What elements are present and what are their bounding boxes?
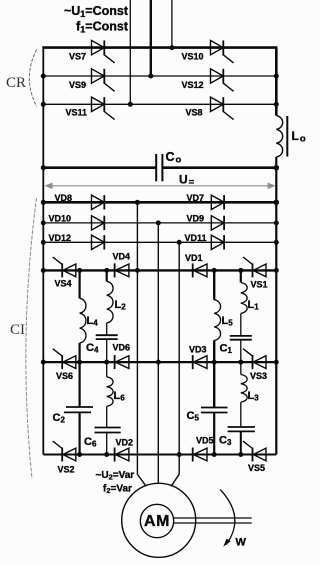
- junction right bus / row VD11: [274, 240, 279, 245]
- diode VD2: [115, 448, 129, 462]
- thyristor VS3: [243, 349, 266, 369]
- junction dot left bus rowVS9: [41, 74, 46, 79]
- diode VD5: [193, 448, 207, 462]
- inductor Lo: [276, 116, 282, 157]
- thyristor VS4: [53, 257, 76, 277]
- svg-text:VD8: VD8: [55, 193, 73, 203]
- svg-text:VD4: VD4: [113, 252, 131, 262]
- junction dot rail/left bus: [41, 165, 46, 170]
- thyristor VS9: [92, 69, 115, 92]
- junction right bus / row 1: [274, 268, 279, 273]
- capacitor C2: [66, 406, 93, 408]
- svg-text:VD7: VD7: [187, 193, 205, 203]
- wire: L1 to C1: [240, 314, 242, 336]
- svg-text:VS11: VS11: [66, 108, 88, 118]
- motor AM inner circle: [140, 504, 173, 537]
- svg-text:VS10: VS10: [182, 52, 204, 62]
- wire: rectifier row VS11/VS8: [43, 103, 276, 105]
- junction column L5 / row 2: [212, 360, 217, 365]
- svg-text:f2=Var: f2=Var: [103, 484, 132, 496]
- diode VD6: [115, 355, 129, 369]
- wire: column L1 upper: [240, 270, 242, 282]
- wire: 3-phase input line 2 (bold): [150, 0, 152, 76]
- wire: DC link rail (bold) with capacitor Co: [43, 166, 156, 169]
- wire: right DC bus lower: [275, 157, 277, 455]
- thyristor VS2: [53, 441, 76, 461]
- diode VD1: [193, 263, 207, 277]
- wire: row VD10/VD9: [43, 222, 276, 224]
- diode VD8: [92, 195, 105, 209]
- thyristor VS10: [211, 40, 234, 63]
- svg-text:VD9: VD9: [187, 214, 205, 224]
- thyristor VS8: [211, 97, 234, 120]
- wire: 3-phase input line 3: [171, 0, 173, 48]
- wire: C6 to row3: [106, 433, 108, 455]
- diode VD12: [92, 235, 105, 249]
- capacitor C5: [201, 407, 228, 409]
- wire: L6 top stem: [106, 362, 108, 377]
- dimension arrow U= (gray): [45, 183, 276, 190]
- junction phase B / row 2: [156, 360, 161, 365]
- junction left bus / row 1: [41, 268, 46, 273]
- wire: inverter row 3: [43, 454, 276, 456]
- svg-text:VD12: VD12: [49, 233, 72, 243]
- wire: L3 top stem: [240, 362, 242, 374]
- wire: phase column A: [137, 202, 146, 486]
- junction dot input3/rowVS7: [169, 45, 174, 50]
- junction column L1 / row 1: [238, 268, 243, 273]
- svg-text:VS12: VS12: [182, 80, 204, 90]
- svg-text:CI: CI: [10, 322, 25, 338]
- svg-text:VD5: VD5: [196, 436, 214, 446]
- wire: rectifier row VS9/VS12: [43, 75, 276, 77]
- wire: column L5 upper: [213, 270, 215, 299]
- wire: inverter row 2 (bold): [43, 361, 276, 363]
- junction column L2 / row 1: [104, 268, 109, 273]
- svg-text:VD11: VD11: [185, 233, 207, 243]
- junction phase C / row 3: [177, 452, 182, 457]
- junction dot right bus rowVS8: [274, 102, 279, 107]
- svg-text:~U1=Const: ~U1=Const: [64, 4, 129, 19]
- svg-text:VD6: VD6: [113, 343, 131, 353]
- inductor L5: [214, 300, 220, 341]
- junction dot phase B / row VD10: [156, 220, 161, 225]
- svg-text:VS8: VS8: [186, 108, 203, 118]
- wire: C1 to row2: [240, 340, 242, 362]
- capacitor C3: [228, 426, 255, 428]
- svg-text:VD1: VD1: [185, 253, 203, 263]
- capacitor C1: [230, 335, 252, 337]
- junction column C1 / row 2: [238, 360, 243, 365]
- wire: phase column C: [171, 242, 179, 486]
- diode VD3: [193, 355, 207, 369]
- svg-text:W: W: [236, 537, 247, 549]
- wire: column L2 upper: [106, 270, 108, 281]
- capacitor Co: [155, 154, 157, 181]
- brace CR: [29, 49, 36, 106]
- wire: column L4 lower: [78, 412, 80, 454]
- junction column L5 / row 1: [212, 268, 217, 273]
- junction column C2 / row 2: [77, 360, 82, 365]
- brace CI: [26, 198, 37, 479]
- capacitor C4: [96, 334, 118, 336]
- wire: C4 to row2: [106, 339, 108, 362]
- capacitor C6: [95, 427, 121, 429]
- svg-text:VS1: VS1: [251, 280, 268, 290]
- junction left bus / row 2: [41, 360, 46, 365]
- core bar of Lo: [286, 116, 288, 157]
- junction left bus / row VD12: [41, 240, 46, 245]
- svg-text:CR: CR: [6, 75, 26, 91]
- svg-text:VS2: VS2: [58, 465, 75, 475]
- wire: L2 to C4: [106, 323, 108, 335]
- junction left bus / row VD8: [41, 200, 46, 205]
- diode VD10: [92, 216, 105, 230]
- junction column C6 / row 3: [104, 452, 109, 457]
- wire: inverter row 1 (bold): [43, 269, 276, 271]
- thyristor VS7: [92, 40, 115, 63]
- svg-text:VS3: VS3: [250, 371, 267, 381]
- wire: column L4 mid: [78, 343, 80, 407]
- wire: column L5 lower: [213, 340, 215, 407]
- svg-text:VD10: VD10: [49, 214, 72, 224]
- junction dot right bus rowVS12: [274, 74, 279, 79]
- junction right bus / row 2: [274, 360, 279, 365]
- svg-text:VD2: VD2: [116, 438, 134, 448]
- diode VD7: [211, 195, 224, 209]
- inductor L2: [107, 281, 113, 323]
- diode VD4: [115, 263, 129, 277]
- inductor L4: [80, 298, 86, 343]
- motor shaft: [174, 517, 252, 519]
- junction column C2 / row 3: [77, 452, 82, 457]
- svg-text:VS5: VS5: [248, 463, 265, 473]
- motor AM outer circle: [122, 483, 196, 557]
- thyristor VS12: [211, 69, 234, 92]
- wire: L6 to C6: [106, 406, 108, 427]
- svg-text:AM: AM: [144, 513, 170, 530]
- junction column L4 / row 1: [77, 268, 82, 273]
- inductor L1: [241, 283, 247, 314]
- junction dot left bus rowVS11: [41, 102, 46, 107]
- svg-text:VS6: VS6: [56, 371, 73, 381]
- wire: 3-phase input line 1: [129, 0, 131, 104]
- wire: column L4 upper: [78, 270, 80, 298]
- svg-text:VD3: VD3: [189, 345, 207, 355]
- junction dot input2/rowVS9: [148, 74, 153, 79]
- thyristor VS6: [53, 349, 76, 369]
- diode VD11: [211, 235, 224, 249]
- thyristor VS1: [243, 257, 266, 277]
- diode VD9: [211, 216, 224, 230]
- inductor L3: [241, 375, 247, 403]
- junction dot phase A / row VD8: [135, 200, 140, 205]
- junction dot phase C / row VD12: [177, 240, 182, 245]
- wire: right DC bus upper: [275, 48, 278, 116]
- junction column C3 / row 3: [238, 452, 243, 457]
- inductor L6: [107, 377, 113, 406]
- wire: row VD12/VD11: [43, 241, 276, 243]
- junction dot input1/rowVS11: [128, 102, 133, 107]
- junction left bus / row VD10: [41, 220, 46, 225]
- svg-text:VS9: VS9: [69, 80, 86, 90]
- svg-text:VS4: VS4: [55, 279, 72, 289]
- junction right bus / row VD9: [274, 220, 279, 225]
- junction dot rail/right bus: [274, 165, 280, 171]
- thyristor VS5: [243, 441, 266, 461]
- wire: rectifier row VS7/VS10 (bold): [42, 46, 277, 49]
- junction right bus / row VD7: [274, 200, 280, 206]
- wire: row VD8/VD7 (bold): [43, 201, 276, 204]
- wire: C3 to row3 (bold): [240, 431, 242, 454]
- junction phase A / row 1: [135, 268, 140, 273]
- wire: L3 to C3: [240, 402, 242, 427]
- wire: C5 to row3: [213, 413, 215, 455]
- thyristor VS11: [92, 97, 115, 120]
- wire: phase column B: [157, 223, 159, 484]
- svg-text:~U2=Var: ~U2=Var: [96, 470, 135, 482]
- junction column C5 / row 3: [212, 452, 217, 457]
- rotation arrow W: [220, 490, 235, 545]
- svg-text:VS7: VS7: [69, 52, 86, 62]
- junction column C4 / row 2: [104, 360, 109, 365]
- wire: left DC bus: [42, 48, 44, 455]
